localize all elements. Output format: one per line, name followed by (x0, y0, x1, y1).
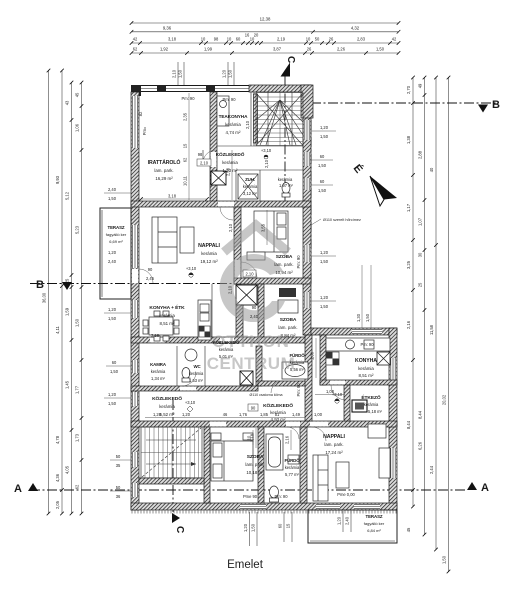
door arc corridor/nappali1 (220, 207, 233, 220)
svg-text:1,20: 1,20 (243, 523, 248, 532)
svg-text:1,85: 1,85 (260, 412, 269, 417)
svg-text:3,25: 3,25 (406, 260, 411, 269)
kitchen counter left apt (198, 300, 211, 340)
svg-text:ZUH.: ZUH. (245, 177, 255, 182)
svg-text:4,11: 4,11 (55, 325, 60, 333)
svg-text:+3,10: +3,10 (186, 266, 197, 271)
svg-text:60: 60 (278, 523, 283, 528)
top dimension line 2 (9,36 / 4,32) (130, 25, 401, 33)
room label IRATTAROLO (148, 158, 181, 181)
dim stubs above top wall right pair (222, 62, 235, 86)
svg-text:50: 50 (315, 37, 320, 42)
svg-text:50: 50 (116, 454, 121, 459)
svg-text:1,50: 1,50 (110, 369, 119, 374)
window label right w1 (311, 125, 336, 139)
interior dim 240 konyha nook (250, 314, 259, 319)
section line A (dash-dot) (30, 489, 465, 491)
svg-text:2,16: 2,16 (285, 435, 290, 444)
room label KOZLEKEDO upper (216, 151, 245, 173)
svg-text:90: 90 (148, 267, 153, 272)
svg-text:2,10: 2,10 (200, 161, 209, 166)
left dimension line 1 (36,00 overall) (42, 69, 51, 516)
stairwell upper treads (256, 93, 303, 146)
svg-text:2,50: 2,50 (226, 167, 231, 176)
room label KONYHA2 (355, 358, 377, 378)
svg-text:3,18: 3,18 (151, 333, 160, 338)
svg-text:8,51 m²: 8,51 m² (359, 373, 374, 378)
sofa NAPPALI2 (313, 455, 328, 501)
svg-text:10,11: 10,11 (183, 175, 188, 186)
section marker B left (36, 279, 72, 291)
svg-text:2,10: 2,10 (228, 285, 233, 294)
svg-text:1,00: 1,00 (310, 351, 315, 360)
toilet WC (182, 368, 190, 383)
svg-text:3,18: 3,18 (168, 37, 177, 42)
room label ETKEZO (361, 393, 382, 414)
inner wall KONYHA left vertical (320, 335, 326, 385)
svg-text:Pm: 90: Pm: 90 (296, 383, 301, 397)
inner wall IRATTAROLO/TEAKONYHA vertical (210, 92, 217, 206)
outer wall left (131, 92, 139, 510)
svg-text:5,01 m²: 5,01 m² (219, 354, 234, 359)
room label SZOBA3 (245, 454, 264, 475)
svg-text:A: A (14, 483, 22, 495)
window label right w2 (311, 154, 333, 168)
svg-text:15: 15 (286, 523, 291, 528)
svg-text:FÜRDŐ: FÜRDŐ (289, 353, 305, 358)
svg-text:1,50: 1,50 (318, 163, 327, 168)
svg-text:kerámia: kerámia (159, 404, 175, 409)
stairs lower diagonal and walk line (142, 428, 201, 477)
inner wall above bottom row (131, 421, 397, 427)
svg-text:KÖZLEKEDŐ: KÖZLEKEDŐ (263, 402, 293, 409)
bottom dimension stubs terasz (337, 511, 352, 532)
svg-text:8,84 m²: 8,84 m² (281, 333, 296, 338)
table NAPPALI1 (180, 227, 194, 253)
wall strip below middle shaft (236, 305, 243, 338)
svg-text:60: 60 (236, 37, 241, 42)
svg-text:2,35: 2,35 (183, 112, 188, 121)
outer wall right upper (301, 85, 313, 335)
top dimension line 1 (overall 12,38) (130, 17, 401, 25)
room label NAPPALI1 (198, 243, 220, 264)
svg-text:2,10: 2,10 (172, 69, 177, 78)
door arc SZOBA1 (241, 262, 257, 278)
svg-text:NAPPALI: NAPPALI (323, 434, 345, 440)
inner wall corridor top (left apt) (131, 386, 258, 391)
svg-text:46: 46 (223, 412, 228, 417)
room label KAMRA (150, 362, 167, 381)
svg-text:+3,10: +3,10 (185, 400, 196, 405)
svg-text:TERASZ: TERASZ (108, 225, 125, 230)
svg-text:1,77: 1,77 (75, 385, 80, 394)
left dimension line 4 (75, 81, 84, 516)
interior dim chain konyha2 horizontal (315, 389, 345, 395)
svg-text:kerámia: kerámia (151, 369, 166, 374)
shower ZUH (238, 174, 258, 199)
svg-text:Ø110 szerelt hőrcímez: Ø110 szerelt hőrcímez (323, 218, 361, 222)
svg-text:1,45: 1,45 (65, 380, 70, 389)
svg-text:2,40: 2,40 (345, 516, 350, 525)
inner wall stairs/SZOBA3 (204, 427, 210, 503)
room label KONYHA+ETK (149, 303, 185, 326)
svg-text:2,70: 2,70 (406, 85, 411, 94)
insulation ticks bottom wall (132, 511, 396, 514)
terrace bottom right (308, 510, 397, 543)
door arc IRATTAROLO (203, 150, 216, 163)
svg-text:19,12 m²: 19,12 m² (200, 259, 218, 264)
svg-text:8,44: 8,44 (406, 420, 411, 429)
partition TEAKONYHA bottom (217, 145, 303, 147)
interior dim vertical irattarolo (183, 93, 190, 200)
svg-text:36,00: 36,00 (42, 292, 47, 303)
svg-text:45: 45 (75, 92, 80, 97)
interior dim 318 (139, 194, 209, 201)
interior dim chain szoba1 vertical (261, 210, 268, 245)
svg-text:SZOBA: SZOBA (247, 454, 264, 460)
svg-text:2,16: 2,16 (406, 320, 411, 329)
outer wall right lower (389, 328, 397, 510)
outer wall step (top of right wing) (311, 328, 397, 335)
dresser SZOBA1 (247, 252, 265, 260)
interior dim vertical szoba2 (310, 338, 317, 378)
svg-text:4,05: 4,05 (65, 465, 70, 474)
svg-text:62: 62 (183, 157, 188, 162)
svg-text:1,73: 1,73 (75, 433, 80, 442)
svg-text:9,93: 9,93 (55, 175, 60, 184)
bed SZOBA1 (254, 211, 288, 252)
svg-text:60: 60 (112, 360, 117, 365)
svg-text:5,18 m²: 5,18 m² (368, 409, 383, 414)
section line B vertical jog (310, 103, 312, 284)
svg-text:FÜRDŐ: FÜRDŐ (284, 458, 300, 463)
window label left w3 (106, 360, 131, 374)
svg-text:B: B (492, 99, 500, 111)
svg-text:82: 82 (138, 111, 143, 116)
svg-text:lam. park.: lam. park. (245, 462, 264, 467)
svg-text:lam. park.: lam. park. (274, 262, 293, 267)
interior dim chain furdo2 vertical (285, 430, 292, 450)
door arc KONYHA2 (331, 385, 346, 400)
level mark etkezo (332, 392, 343, 403)
svg-text:10: 10 (201, 36, 206, 41)
svg-text:B: B (36, 279, 44, 291)
room label SZOBA2 (278, 317, 297, 338)
dim stubs above top wall left pair (172, 62, 185, 86)
kitchen counter wall (left apt) (211, 284, 213, 340)
inner wall KONYHA bottom (320, 380, 397, 385)
svg-text:1,50: 1,50 (320, 259, 329, 264)
tub FURDO (556) (282, 362, 308, 379)
window label left w2 (104, 307, 131, 321)
svg-text:10,18 m²: 10,18 m² (246, 470, 264, 475)
stove right KONYHA (checkerboard) (326, 352, 339, 365)
svg-text:lam. park.: lam. park. (154, 168, 173, 173)
svg-text:2,26: 2,26 (337, 47, 346, 52)
svg-text:Pm: 90: Pm: 90 (223, 97, 237, 102)
partition corridor/ZUH walls (236, 170, 303, 201)
svg-text:4,36: 4,36 (55, 473, 60, 482)
svg-text:C: C (174, 526, 185, 533)
svg-text:5,12: 5,12 (65, 191, 70, 200)
svg-text:8,44: 8,44 (418, 410, 423, 419)
section marker B right (478, 99, 500, 113)
svg-text:lam. park.: lam. park. (278, 325, 297, 330)
door arc corridor left (182, 372, 196, 386)
svg-text:Pm: 90: Pm: 90 (296, 255, 301, 269)
shaft X-box top (211, 171, 226, 185)
svg-text:KÖZLEKEDŐ: KÖZLEKEDŐ (152, 395, 182, 402)
svg-text:KAMRA: KAMRA (150, 362, 167, 367)
svg-text:1,50: 1,50 (251, 523, 256, 532)
room label FURDO 556 (289, 353, 305, 372)
cupboard NAPPALI2 right (379, 448, 390, 478)
right dimension line 2 (418, 76, 427, 537)
svg-text:1,50: 1,50 (318, 188, 327, 193)
svg-text:36: 36 (116, 494, 121, 499)
stove left apt (checkerboard) (199, 326, 210, 337)
svg-text:4,74 m²: 4,74 m² (226, 130, 241, 135)
svg-text:Pme 90: Pme 90 (243, 494, 258, 499)
svg-text:90: 90 (252, 305, 257, 310)
fridge right KONYHA (377, 352, 390, 365)
inner wall SZOBA1/SZOBA2 horizontal (234, 278, 311, 284)
svg-text:4,93 m²: 4,93 m² (271, 417, 286, 422)
svg-text:60: 60 (320, 179, 325, 184)
partition corridor501 right wall (256, 346, 262, 386)
svg-text:6,52 m²: 6,52 m² (160, 412, 175, 417)
svg-text:2,40: 2,40 (108, 187, 117, 192)
svg-text:kerámia: kerámia (201, 251, 217, 256)
door label 210 szoba1 (243, 270, 256, 277)
svg-text:26: 26 (307, 47, 312, 52)
stairs lower treads (141, 427, 202, 478)
svg-text:2,40: 2,40 (250, 314, 259, 319)
svg-text:kerámia: kerámia (243, 184, 258, 189)
door arc FURDO2 (287, 427, 299, 439)
note pipe upper (311, 218, 361, 225)
svg-text:40: 40 (429, 167, 434, 172)
door arc FURDO (271, 381, 283, 393)
svg-text:2,10: 2,10 (264, 159, 269, 168)
window label left w6 (110, 485, 131, 499)
window label right w3 (311, 179, 333, 193)
svg-text:1,30: 1,30 (356, 313, 361, 322)
svg-text:26: 26 (329, 37, 334, 42)
svg-text:2,10: 2,10 (245, 120, 250, 129)
tub FURDO2 (266, 434, 283, 470)
svg-text:1,50: 1,50 (108, 401, 117, 406)
svg-text:C: C (285, 56, 296, 63)
inner wall below IRATTAROLO row (131, 201, 311, 207)
level mark nappali1 (186, 266, 197, 277)
washbasin FURDO2 (288, 455, 299, 464)
inner wall FURDO bottom (258, 381, 311, 386)
svg-text:2,19: 2,19 (277, 37, 286, 42)
svg-text:1,20: 1,20 (182, 412, 191, 417)
svg-text:5,56 m²: 5,56 m² (290, 367, 305, 372)
svg-text:50: 50 (116, 485, 121, 490)
north arrow É (351, 162, 397, 206)
svg-text:98: 98 (214, 37, 219, 42)
room label TERASZ left (106, 225, 127, 264)
svg-text:10: 10 (306, 36, 311, 41)
room label NAPPALI2 (323, 434, 345, 455)
inner wall corridor493/KONYHA vertical (305, 335, 312, 421)
top dimension line 3 (detail) (130, 33, 401, 45)
door leaf IRATTAROLO (202, 150, 204, 163)
svg-text:kerámia: kerámia (278, 177, 293, 182)
svg-text:51: 51 (275, 412, 280, 417)
svg-text:4,78: 4,78 (55, 435, 60, 444)
section line B left (dash-dot) (30, 283, 311, 285)
svg-text:6,84 m²: 6,84 m² (367, 528, 381, 533)
svg-text:10: 10 (227, 36, 232, 41)
svg-text:1,50: 1,50 (108, 196, 117, 201)
svg-text:SZOBA: SZOBA (280, 317, 297, 323)
level mark corridor upper (261, 148, 272, 159)
teakonyha counter (217, 96, 229, 126)
svg-text:1,20: 1,20 (320, 125, 329, 130)
svg-text:+3,10: +3,10 (261, 148, 272, 153)
dim stubs below wall furdo2 (278, 512, 293, 542)
svg-text:90: 90 (251, 406, 256, 411)
svg-text:3,87: 3,87 (273, 47, 282, 52)
svg-text:A: A (481, 482, 489, 494)
svg-text:Emelet: Emelet (227, 559, 264, 571)
interior dim chain szoba3 (250, 428, 257, 448)
dim stubs below wall szoba3 (243, 512, 257, 546)
section line C bottom (dash-dot vertical) (172, 400, 174, 512)
toilet FURDO2 (270, 486, 279, 502)
svg-text:1,53 m²: 1,53 m² (189, 378, 204, 383)
svg-text:Pm=: Pm= (142, 126, 147, 135)
window label left w5 (110, 454, 131, 468)
svg-text:1,99: 1,99 (204, 47, 213, 52)
window label left w1 (104, 187, 131, 201)
svg-text:SZOBA: SZOBA (276, 254, 293, 260)
svg-text:45: 45 (406, 527, 411, 532)
svg-text:kerámia: kerámia (222, 160, 238, 165)
svg-text:1,20: 1,20 (337, 516, 342, 525)
bed SZOBA3 (211, 433, 253, 481)
svg-text:42: 42 (392, 37, 397, 42)
svg-text:3,12 m²: 3,12 m² (243, 191, 258, 196)
svg-text:WC: WC (193, 364, 201, 369)
dining table KONYHA+ETK (143, 311, 179, 341)
svg-text:1,97 m²: 1,97 m² (279, 183, 294, 188)
svg-text:10: 10 (250, 36, 255, 41)
svg-text:6,26: 6,26 (418, 441, 423, 450)
interior dim row corridor (145, 412, 323, 418)
room label TEAKONYHA (219, 114, 249, 135)
svg-text:1,50: 1,50 (108, 316, 117, 321)
svg-text:9,36: 9,36 (163, 25, 172, 30)
terrace left (100, 208, 131, 299)
window label left w4 (104, 392, 131, 406)
shaft X-box middle (236, 285, 257, 305)
left dimension line 2 (55, 69, 64, 516)
svg-text:10,94 m²: 10,94 m² (275, 270, 293, 275)
svg-text:2,40: 2,40 (108, 259, 117, 264)
room label TERASZ right (364, 514, 385, 533)
svg-text:NAPPALI: NAPPALI (198, 243, 220, 249)
door label 210 boxed (197, 159, 211, 166)
door arc NAPPALI2 (312, 427, 326, 441)
svg-text:1,50: 1,50 (178, 69, 183, 78)
svg-text:2,88: 2,88 (418, 150, 423, 159)
cupboard ETKEZO corner (368, 424, 386, 438)
section marker A left (14, 483, 38, 495)
svg-text:2,45: 2,45 (146, 276, 155, 281)
shaft X-box corridor (240, 371, 253, 385)
room label bath 197 (278, 177, 294, 188)
svg-text:30: 30 (418, 252, 423, 257)
svg-text:2,18: 2,18 (250, 433, 255, 442)
svg-text:1,50: 1,50 (365, 313, 370, 322)
section marker A right (467, 482, 489, 494)
partition ETKEZO nook (344, 385, 350, 421)
svg-text:2,05: 2,05 (55, 500, 60, 509)
svg-text:20: 20 (254, 33, 259, 38)
inner wall NAPPALI/SZOBA vertical (234, 207, 241, 284)
svg-text:98: 98 (198, 152, 203, 157)
svg-text:1,50: 1,50 (320, 134, 329, 139)
svg-text:Pm: 90: Pm: 90 (361, 342, 375, 347)
inner wall SZOBA2 left vertical (258, 284, 264, 342)
svg-text:1,20: 1,20 (108, 392, 117, 397)
partition WC right (204, 346, 206, 386)
svg-text:fagyálló ker: fagyálló ker (364, 521, 385, 526)
watermark logo roof (207, 225, 296, 373)
svg-text:8,51 m²: 8,51 m² (160, 321, 175, 326)
svg-text:4,32: 4,32 (351, 25, 360, 30)
table NAPPALI2 (336, 462, 349, 488)
svg-text:kerámia: kerámia (159, 313, 175, 318)
right dimension line 4 (442, 76, 451, 574)
room label FURDO2 (284, 458, 300, 477)
svg-text:1,20: 1,20 (108, 250, 117, 255)
svg-text:62: 62 (75, 484, 80, 489)
svg-text:49: 49 (418, 83, 423, 88)
svg-text:62: 62 (133, 47, 138, 52)
svg-text:1,50: 1,50 (442, 555, 447, 564)
svg-text:2,44: 2,44 (429, 465, 434, 474)
svg-text:1,76: 1,76 (239, 412, 248, 417)
svg-text:1,50: 1,50 (75, 318, 80, 327)
svg-text:5,23: 5,23 (75, 225, 80, 234)
svg-text:1,34 m²: 1,34 m² (151, 376, 166, 381)
table ETKEZO (352, 400, 367, 412)
svg-text:1,20: 1,20 (108, 307, 117, 312)
door arc terrace/NAPPALI (139, 269, 153, 283)
outer wall bottom (131, 503, 397, 510)
svg-text:kerámia: kerámia (219, 347, 234, 352)
svg-text:KÖZLEKEDŐ: KÖZLEKEDŐ (213, 340, 240, 345)
room label SZOBA1 (274, 254, 293, 275)
svg-text:3,18: 3,18 (168, 194, 177, 199)
svg-text:1,50: 1,50 (376, 47, 385, 52)
stairwell lower bottom wall (139, 478, 204, 484)
svg-text:1,00: 1,00 (314, 412, 323, 417)
svg-text:35: 35 (116, 463, 121, 468)
svg-text:1,50: 1,50 (320, 304, 329, 309)
counter right KONYHA (326, 338, 390, 351)
svg-text:1,20: 1,20 (153, 412, 162, 417)
interior dim chain corridor upper vertical (226, 150, 233, 200)
rot dim 130/150 konyha2 top (356, 265, 371, 328)
svg-text:6,69 m²: 6,69 m² (109, 239, 123, 244)
